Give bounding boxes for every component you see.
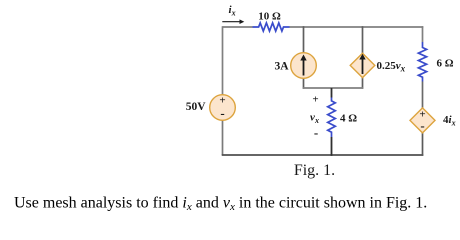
svg-text:50V: 50V bbox=[186, 101, 207, 113]
wire: left upper bbox=[222, 26, 224, 95]
label: vx voltage bbox=[310, 112, 319, 126]
label: ix current with subscript bbox=[229, 4, 236, 18]
wire: 3A branch lower bbox=[303, 78, 305, 89]
source I1 3A (independent current source circle with up arrow) bbox=[291, 53, 317, 79]
label: problem statement text bbox=[14, 195, 427, 214]
svg-text:Fig. 1.: Fig. 1. bbox=[294, 162, 335, 179]
label: vx plus sign bbox=[312, 94, 318, 106]
label: figure caption bbox=[294, 162, 335, 179]
label: 6 ohm value bbox=[437, 58, 454, 70]
svg-text:4 Ω: 4 Ω bbox=[340, 113, 357, 125]
label: 4 ohm value bbox=[340, 113, 357, 125]
wire: middle horizontal (between 3A and 0.25vx bottoms) bbox=[303, 87, 364, 89]
svg-text:6 Ω: 6 Ω bbox=[437, 58, 454, 70]
wire: right lower (diamond to bottom) bbox=[422, 133, 424, 156]
resistor 6 ohm (vertical, right) bbox=[418, 42, 426, 82]
wire: right middle (6-ohm to diamond) bbox=[422, 82, 424, 109]
svg-text:vx: vx bbox=[310, 112, 319, 126]
resistor 4 ohm (vertical, middle) bbox=[328, 98, 336, 138]
wire: top-left segment bbox=[223, 26, 253, 28]
svg-text:0.25vx: 0.25vx bbox=[377, 60, 406, 74]
wire: right upper (top corner to 6-ohm) bbox=[422, 26, 424, 42]
arrow: ix current direction bbox=[222, 19, 244, 24]
wire: 4-ohm branch upper stub bbox=[331, 88, 333, 98]
svg-text:Use mesh analysis to find ix a: Use mesh analysis to find ix and vx in t… bbox=[14, 195, 427, 214]
wire: bottom bbox=[222, 154, 424, 156]
wire: left lower bbox=[222, 120, 224, 155]
label: 3A value bbox=[274, 60, 289, 72]
svg-text:ix: ix bbox=[229, 4, 236, 18]
wire: 0.25vx branch upper bbox=[362, 26, 364, 54]
label: 0.25vx value bbox=[377, 60, 406, 74]
svg-text:10 Ω: 10 Ω bbox=[258, 11, 281, 23]
label: vx minus sign bbox=[314, 125, 318, 140]
svg-text:-: - bbox=[420, 118, 424, 133]
resistor 10 ohm (horizontal, top) bbox=[253, 23, 290, 31]
source E1 4ix (dependent voltage source diamond with +/-) bbox=[410, 108, 435, 133]
svg-text:-: - bbox=[314, 125, 318, 140]
svg-text:-: - bbox=[220, 106, 224, 121]
wire: 4-ohm branch lower bbox=[331, 137, 333, 156]
svg-text:3A: 3A bbox=[274, 60, 289, 72]
wire: 0.25vx branch lower bbox=[362, 77, 364, 89]
wire: top-right segment bbox=[290, 26, 424, 28]
label: 4ix value bbox=[443, 114, 456, 128]
label: 50V value bbox=[186, 101, 207, 113]
svg-text:+: + bbox=[312, 94, 318, 106]
source V1 50V (independent voltage source circle) bbox=[210, 95, 236, 121]
svg-text:4ix: 4ix bbox=[443, 114, 456, 128]
wire: 3A branch upper bbox=[303, 26, 305, 54]
label: 10 ohm value bbox=[258, 11, 281, 23]
source G1 0.25vx (dependent current source diamond with up arrow) bbox=[350, 53, 375, 77]
